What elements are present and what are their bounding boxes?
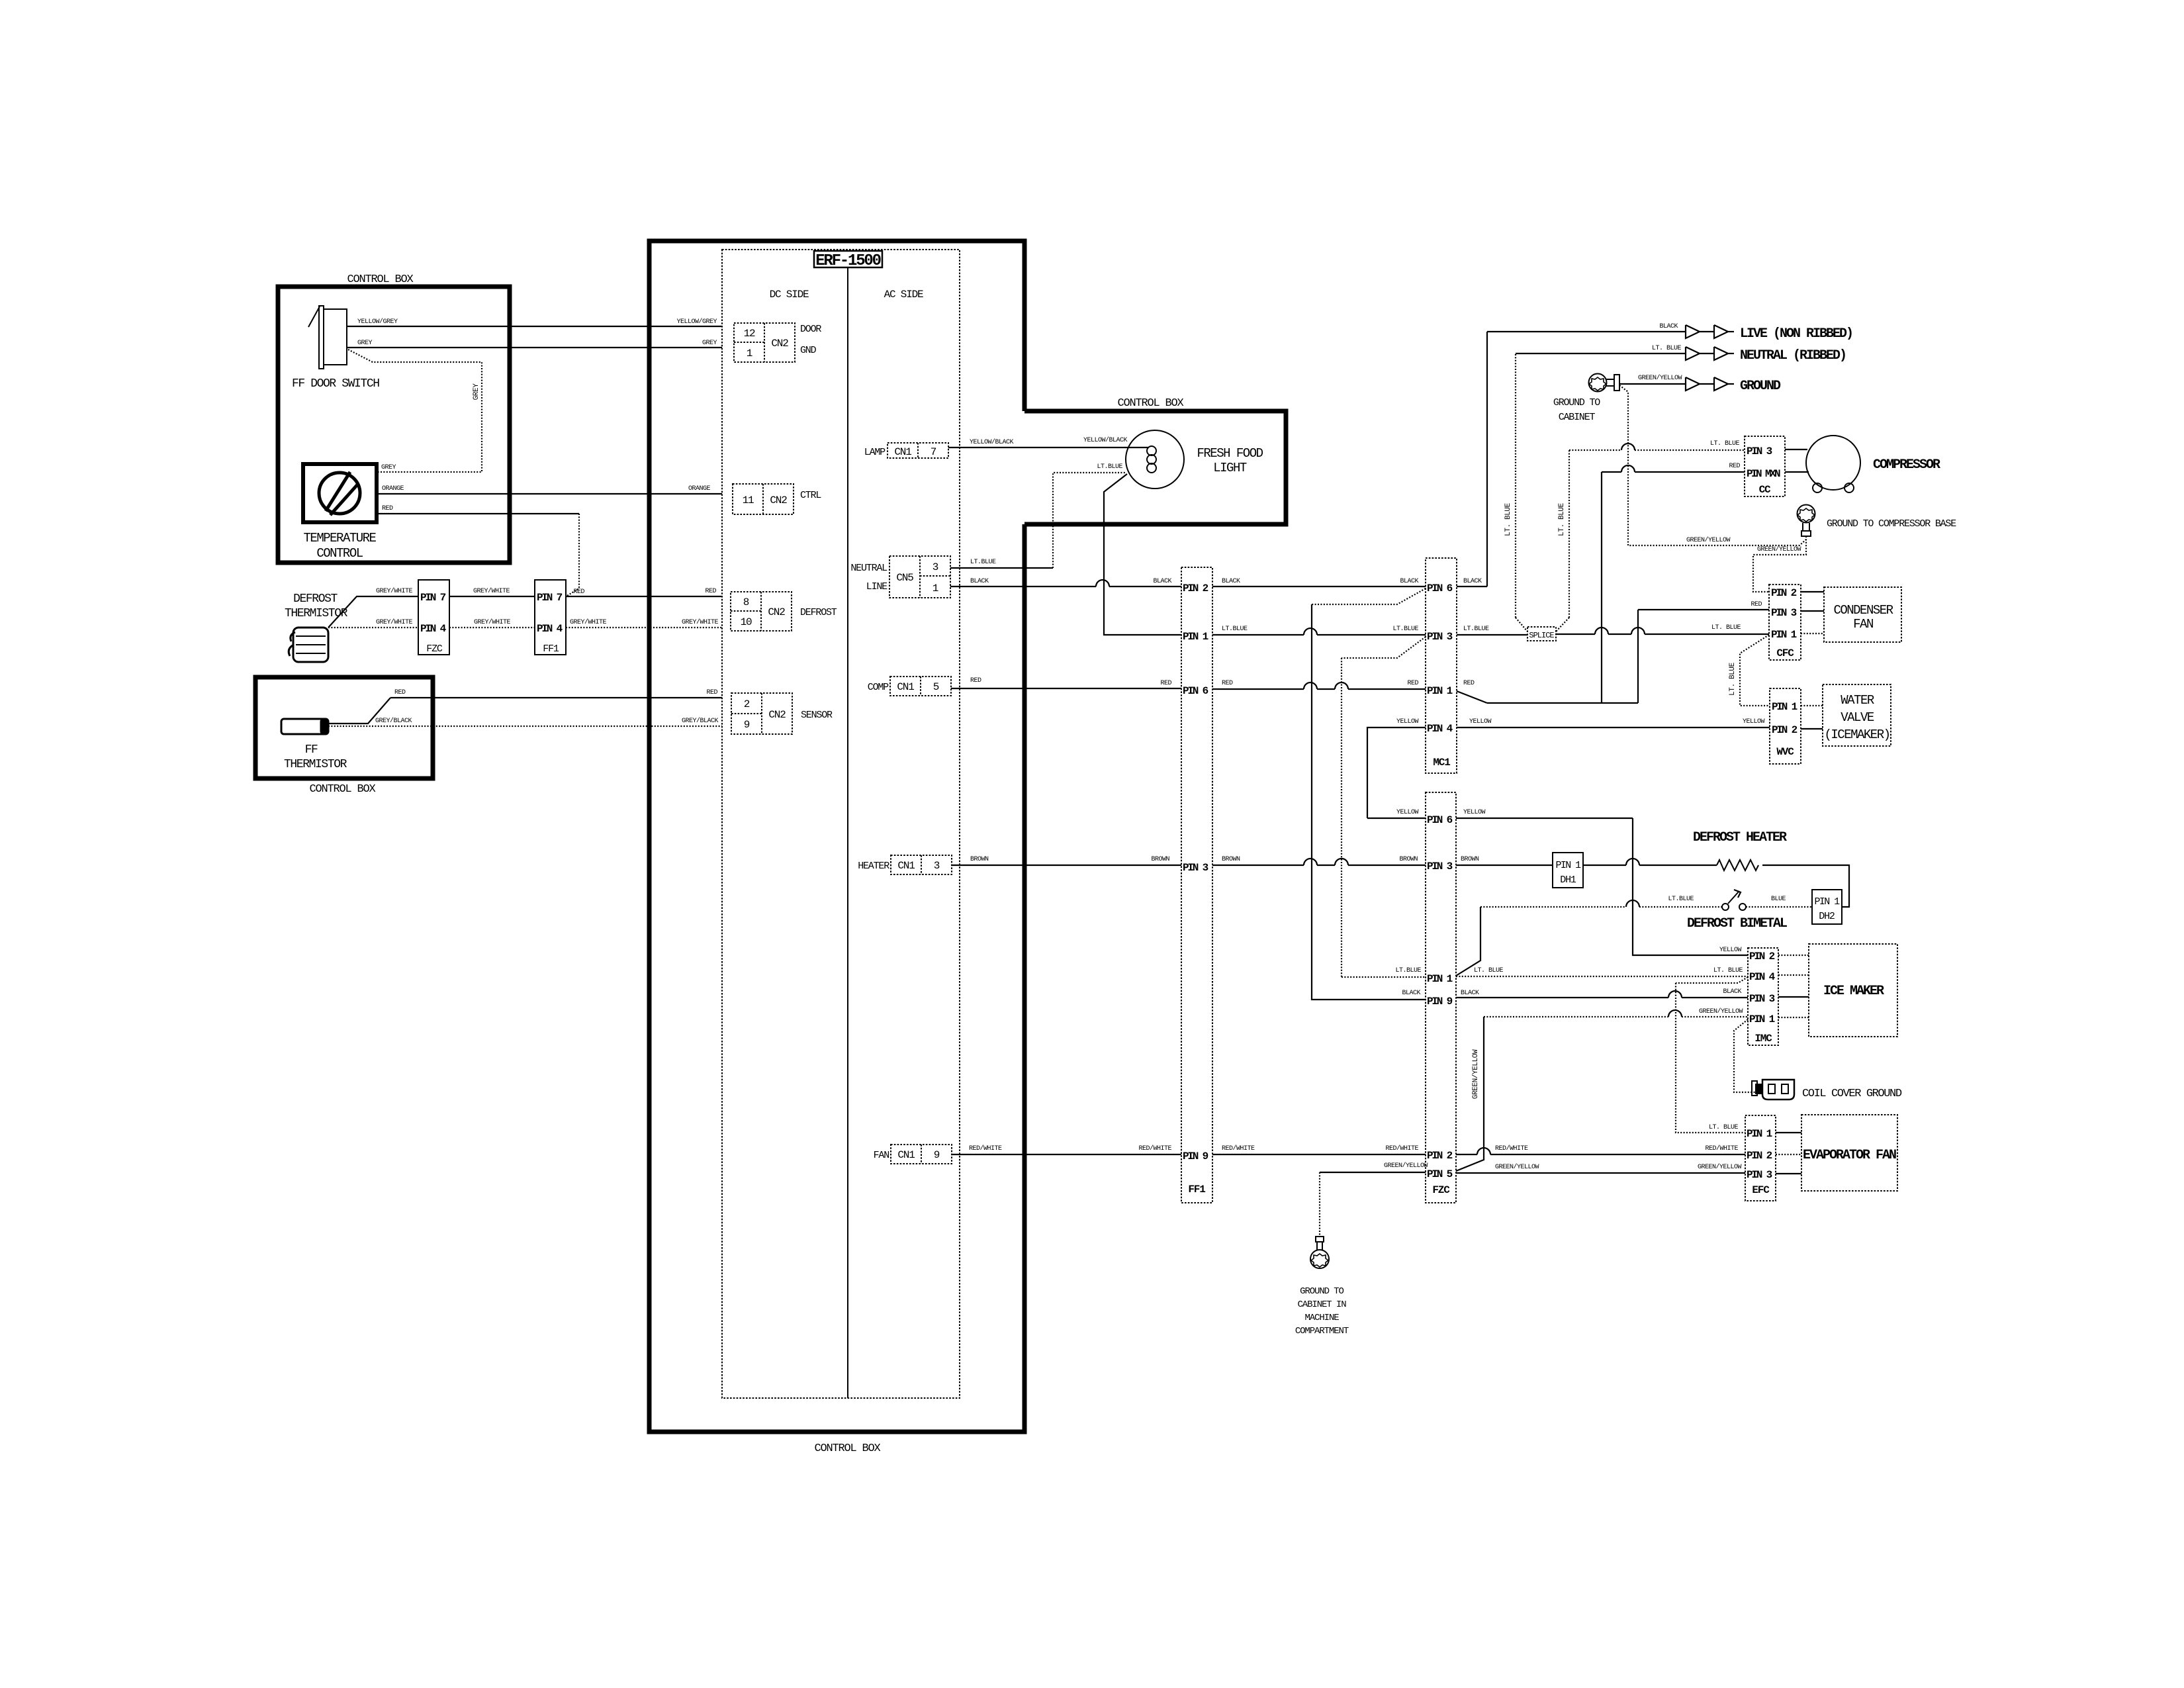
svg-text:PIN 6: PIN 6 <box>1183 685 1208 697</box>
svg-text:ORANGE: ORANGE <box>688 485 711 492</box>
svg-text:PIN 2: PIN 2 <box>1183 583 1208 594</box>
defrost thermistor RT1 symbol <box>289 628 328 662</box>
wire LT.BLUE FF1 pin1 to MC1 pin3 <box>1212 634 1304 635</box>
svg-text:YELLOW: YELLOW <box>1396 809 1419 816</box>
svg-text:GREEN/YELLOW: GREEN/YELLOW <box>1686 536 1731 544</box>
svg-text:PIN 4: PIN 4 <box>420 623 447 635</box>
svg-text:THERMISTOR: THERMISTOR <box>284 758 347 771</box>
svg-text:GREY/BLACK: GREY/BLACK <box>682 717 719 725</box>
svg-text:CN1: CN1 <box>897 1149 915 1161</box>
wire YELLOW/BLACK CN1-7 lamp to fresh food light <box>948 447 1149 448</box>
svg-text:DEFROST HEATER: DEFROST HEATER <box>1693 830 1787 845</box>
svg-text:FF1: FF1 <box>543 643 559 655</box>
svg-text:EFC: EFC <box>1752 1184 1770 1196</box>
svg-text:1: 1 <box>747 348 752 359</box>
fan EVAPORATOR FAN box <box>1801 1115 1897 1191</box>
icemaker ICE MAKER box <box>1809 944 1897 1037</box>
svg-text:LT.BLUE: LT.BLUE <box>1097 463 1122 471</box>
svg-text:TEMPERATURE: TEMPERATURE <box>304 531 377 545</box>
svg-text:RED/WHITE: RED/WHITE <box>969 1145 1002 1152</box>
svg-text:9: 9 <box>744 719 750 731</box>
svg-text:YELLOW: YELLOW <box>1719 947 1742 954</box>
wire GREY/WHITE FZC pin4 to FF1 pin4 <box>449 627 535 628</box>
svg-text:COMP: COMP <box>868 682 889 693</box>
svg-text:MACHINE: MACHINE <box>1304 1313 1339 1323</box>
svg-text:RED: RED <box>1222 680 1233 687</box>
svg-text:CONTROL BOX: CONTROL BOX <box>1117 397 1183 410</box>
svg-text:CFC: CFC <box>1776 647 1794 659</box>
svg-text:GREY/WHITE: GREY/WHITE <box>474 618 511 626</box>
svg-text:BROWN: BROWN <box>1399 856 1418 863</box>
svg-text:RED: RED <box>1407 680 1418 687</box>
svg-text:BLACK: BLACK <box>1723 988 1741 996</box>
wire GREEN/YELLOW IMC pin1 to coil cover ground <box>1734 1019 1757 1092</box>
wire RED temperature control to FF1 pin 7 <box>377 513 579 514</box>
svg-text:PIN 4: PIN 4 <box>1427 723 1453 735</box>
wire IMC pin3 to ice maker <box>1778 996 1809 998</box>
svg-text:1: 1 <box>933 583 938 594</box>
wire EFC pin3 to evaporator fan <box>1776 1173 1801 1174</box>
svg-text:BROWN: BROWN <box>1151 856 1169 863</box>
connector FZC (small, defrost thermistor) <box>418 580 449 655</box>
wire WVC pin1 to water valve <box>1801 705 1823 706</box>
wire LT.BLUE CN5-3 to fresh food light <box>950 567 1053 569</box>
wire RED FF1 pin7 to CN2-8 defrost <box>566 596 722 597</box>
wire BLACK FF1 pin2 to MC1 pin6 <box>1212 586 1426 587</box>
wire BLUE bimetal to DH2 <box>1746 896 1812 907</box>
ERF-1500 board DC/AC divider <box>847 267 848 1398</box>
svg-text:PIN 2: PIN 2 <box>1771 587 1797 599</box>
svg-text:PIN 3: PIN 3 <box>1427 861 1453 872</box>
svg-text:LT.BLUE: LT.BLUE <box>970 559 996 566</box>
svg-text:SPLICE: SPLICE <box>1529 631 1554 640</box>
svg-text:COIL COVER GROUND: COIL COVER GROUND <box>1802 1088 1902 1100</box>
control box around ERF-1500 board (thick outline with fresh food light bay) <box>649 241 1024 1432</box>
svg-text:PIN 1: PIN 1 <box>1772 701 1797 713</box>
svg-text:RED: RED <box>382 505 393 512</box>
svg-text:GREEN/YELLOW: GREEN/YELLOW <box>1698 1163 1742 1171</box>
wire CFC pin1 to condenser fan <box>1801 633 1824 634</box>
wire LT.BLUE fresh food light down to FF1 pin 1 <box>1104 474 1181 635</box>
svg-text:GREY: GREY <box>381 464 396 471</box>
wire BROWN CN1-3 heater to FF1 pin 3 <box>952 865 1181 866</box>
svg-text:GREY/WHITE: GREY/WHITE <box>570 618 607 626</box>
wire BLACK CN5-1 to FF1 pin 2 <box>950 586 1096 587</box>
svg-text:GREY: GREY <box>473 383 480 400</box>
svg-text:YELLOW/GREY: YELLOW/GREY <box>676 318 717 326</box>
svg-text:PIN 4: PIN 4 <box>1749 971 1776 983</box>
svg-text:LT. BLUE: LT. BLUE <box>1713 967 1743 974</box>
wire RED/WHITE FZC pin2 to EFC pin2 <box>1456 1145 1745 1154</box>
wire IMC pin4 to ice maker <box>1778 974 1809 976</box>
wire RED FF thermistor to CN2-2 sensor <box>328 698 390 724</box>
svg-text:FF: FF <box>305 743 318 757</box>
wire LT.BLUE FZC pin1 up to defrost bimetal <box>1456 896 1722 976</box>
wire YELLOW/GREY door switch to CN2-12 <box>347 326 722 327</box>
svg-text:EVAPORATOR FAN: EVAPORATOR FAN <box>1803 1148 1896 1163</box>
svg-text:CN1: CN1 <box>897 860 915 872</box>
wire IMC pin2 to ice maker <box>1778 955 1809 956</box>
svg-text:PIN 1: PIN 1 <box>1427 973 1453 985</box>
svg-text:GREY: GREY <box>702 340 717 347</box>
svg-text:LT. BLUE: LT. BLUE <box>1729 662 1737 695</box>
wire RED CN1-5 comp to FF1 pin 6 <box>951 688 1181 689</box>
svg-text:VALVE: VALVE <box>1841 710 1874 725</box>
svg-text:GREEN/YELLOW: GREEN/YELLOW <box>1472 1049 1480 1099</box>
wire BROWN DH1 to heater element <box>1583 865 1626 866</box>
svg-text:NEUTRAL: NEUTRAL <box>850 563 887 574</box>
connector MC1 (machine compartment) <box>1426 558 1457 773</box>
svg-text:GREEN/YELLOW: GREEN/YELLOW <box>1638 374 1682 382</box>
svg-text:PIN 1: PIN 1 <box>1749 1013 1775 1025</box>
svg-text:2: 2 <box>744 698 750 710</box>
svg-text:FAN: FAN <box>1853 617 1873 632</box>
svg-text:YELLOW: YELLOW <box>1463 809 1486 816</box>
svg-text:LT.BLUE: LT.BLUE <box>1392 626 1418 633</box>
wire BROWN FZC pin3 to DH1 defrost heater <box>1456 856 1553 865</box>
svg-text:BLUE: BLUE <box>1771 896 1786 903</box>
wire YELLOW MC1 pin4 to FZC pin6 <box>1367 718 1426 818</box>
svg-text:BLACK: BLACK <box>970 578 989 585</box>
wire EFC pin1 to evaporator fan <box>1776 1132 1801 1133</box>
svg-text:GREEN/YELLOW: GREEN/YELLOW <box>1384 1162 1428 1170</box>
resistor defrost heater element <box>1717 860 1758 870</box>
svg-text:PIN 1: PIN 1 <box>1555 860 1581 871</box>
ERF-1500 board inner outline <box>722 250 960 1398</box>
svg-text:(ICEMAKER): (ICEMAKER) <box>1824 727 1889 742</box>
svg-text:CONTROL BOX: CONTROL BOX <box>347 273 413 286</box>
svg-text:YELLOW: YELLOW <box>1469 718 1492 726</box>
svg-text:RED/WHITE: RED/WHITE <box>1222 1145 1255 1152</box>
svg-text:BROWN: BROWN <box>1461 856 1479 863</box>
terminal arrows LIVE (NON RIBBED) <box>1686 325 1734 338</box>
svg-text:BLACK: BLACK <box>1222 578 1240 585</box>
ground lug GROUND TO COMPRESSOR BASE symbol <box>1797 505 1815 537</box>
svg-text:LT.BLUE: LT.BLUE <box>1222 626 1248 633</box>
svg-text:LT. BLUE: LT. BLUE <box>1709 1124 1739 1131</box>
connector FZC (freezer compartment) <box>1426 792 1456 1203</box>
ground lug GROUND TO CABINET symbol <box>1589 374 1620 392</box>
svg-text:CN2: CN2 <box>771 338 788 350</box>
svg-text:YELLOW: YELLOW <box>1743 718 1765 726</box>
svg-text:SENSOR: SENSOR <box>801 710 833 721</box>
svg-text:YELLOW/BLACK: YELLOW/BLACK <box>1083 436 1128 444</box>
wire GREEN/YELLOW compressor base lug to CFC pin2 <box>1753 536 1806 592</box>
svg-text:CN1: CN1 <box>897 681 914 693</box>
svg-text:LT. BLUE: LT. BLUE <box>1474 967 1504 974</box>
svg-text:BROWN: BROWN <box>970 856 989 863</box>
svg-text:CN2: CN2 <box>770 494 787 506</box>
svg-text:COMPRESSOR: COMPRESSOR <box>1873 457 1940 473</box>
svg-text:PIN 2: PIN 2 <box>1772 724 1797 736</box>
svg-text:RED/WHITE: RED/WHITE <box>1495 1145 1528 1152</box>
wire YELLOW FZC pin6 to IMC pin2 <box>1456 809 1748 955</box>
wire CFC pin3 to condenser fan <box>1801 610 1824 612</box>
svg-text:BLACK: BLACK <box>1659 323 1678 330</box>
svg-text:PIN 3: PIN 3 <box>1747 445 1772 457</box>
svg-text:FRESH FOOD: FRESH FOOD <box>1197 446 1263 461</box>
svg-text:LINE: LINE <box>866 581 887 592</box>
svg-text:FAN: FAN <box>874 1150 889 1161</box>
svg-text:DEFROST: DEFROST <box>800 607 837 618</box>
svg-text:PIN 6: PIN 6 <box>1427 583 1453 594</box>
switch S1 FF DOOR SWITCH symbol <box>308 306 347 369</box>
connector IMC (ice maker) <box>1748 948 1778 1045</box>
wire GREEN/YELLOW FZC pin5 up to IMC pin1 <box>1456 1008 1748 1171</box>
ground lug COIL COVER GROUND symbol <box>1752 1080 1794 1100</box>
wire LT.BLUE CFC pin1 down to WVC pin1 <box>1729 635 1770 706</box>
svg-text:CN2: CN2 <box>768 709 786 721</box>
svg-text:LT.BLUE: LT.BLUE <box>1668 896 1694 903</box>
svg-text:LIVE (NON RIBBED): LIVE (NON RIBBED) <box>1740 326 1852 342</box>
svg-text:PIN 1: PIN 1 <box>1427 685 1453 697</box>
svg-text:GROUND: GROUND <box>1740 379 1781 394</box>
svg-text:PIN 5: PIN 5 <box>1427 1168 1453 1180</box>
svg-text:BLACK: BLACK <box>1402 990 1420 997</box>
svg-text:PIN 4: PIN 4 <box>537 623 563 635</box>
wire BLACK MC1 pin6 loop down to FZC pin9 <box>1312 588 1426 604</box>
svg-text:BLACK: BLACK <box>1400 578 1418 585</box>
svg-text:GREY/BLACK: GREY/BLACK <box>375 717 412 725</box>
wire GREY/WHITE FZC pin7 to FF1 pin7 <box>449 596 535 597</box>
svg-text:LIGHT: LIGHT <box>1213 461 1247 475</box>
wire LT.BLUE splice up to CC pin3 <box>1556 440 1745 632</box>
svg-text:YELLOW/BLACK: YELLOW/BLACK <box>970 438 1014 446</box>
svg-text:GREY: GREY <box>357 340 373 347</box>
svg-text:PIN 9: PIN 9 <box>1427 996 1453 1008</box>
svg-text:CONDENSER: CONDENSER <box>1833 603 1893 618</box>
svg-text:LAMP: LAMP <box>864 447 886 458</box>
svg-text:RED/WHITE: RED/WHITE <box>1138 1145 1171 1152</box>
svg-text:CABINET: CABINET <box>1559 412 1596 423</box>
wire YELLOW MC1 pin4 to WVC pin2 <box>1457 727 1770 728</box>
svg-text:7: 7 <box>931 446 936 458</box>
svg-text:RED: RED <box>1751 601 1762 608</box>
svg-text:PIN 2: PIN 2 <box>1747 1150 1772 1162</box>
svg-text:9: 9 <box>934 1149 940 1161</box>
svg-text:CONTROL: CONTROL <box>316 546 363 561</box>
svg-text:GND: GND <box>800 345 817 356</box>
svg-text:GREY/WHITE: GREY/WHITE <box>376 618 413 626</box>
svg-text:WATER: WATER <box>1841 693 1874 708</box>
wire EFC pin2 to evaporator fan <box>1776 1154 1801 1155</box>
svg-text:LT. BLUE: LT. BLUE <box>1504 502 1512 536</box>
svg-text:11: 11 <box>743 494 754 506</box>
svg-text:8: 8 <box>743 596 749 608</box>
svg-text:CN1: CN1 <box>894 446 911 458</box>
svg-text:FZC: FZC <box>426 643 443 655</box>
svg-text:PIN 3: PIN 3 <box>1183 862 1208 874</box>
svg-text:RED: RED <box>1463 680 1475 687</box>
wire LT.BLUE IMC pin4 down to EFC pin1 <box>1676 977 1748 1133</box>
svg-text:BLACK: BLACK <box>1463 578 1482 585</box>
svg-text:GREY/WHITE: GREY/WHITE <box>473 587 510 595</box>
switch DEFROST BIMETAL symbol <box>1722 890 1746 910</box>
svg-text:LT. BLUE: LT. BLUE <box>1710 440 1740 447</box>
svg-text:ICE MAKER: ICE MAKER <box>1823 984 1884 999</box>
connector FF1 (small, defrost thermistor) <box>535 580 566 655</box>
svg-text:CABINET IN: CABINET IN <box>1297 1299 1346 1310</box>
svg-text:RED: RED <box>573 588 584 596</box>
connector DH1 box <box>1553 853 1583 888</box>
wire IMC pin1 to ice maker <box>1778 1017 1809 1018</box>
valve WATER VALVE (ICEMAKER) box <box>1823 684 1891 746</box>
wire GREY/BLACK FF thermistor to CN2-9 sensor <box>328 726 722 727</box>
wire GREY door switch to CN2-1 <box>347 347 722 348</box>
connector CN1 comp block <box>890 677 951 696</box>
terminal arrows NEUTRAL (RIBBED) <box>1686 347 1734 360</box>
svg-text:PIN 1: PIN 1 <box>1747 1128 1772 1140</box>
svg-text:FZC: FZC <box>1432 1184 1450 1196</box>
svg-text:PIN 1: PIN 1 <box>1814 896 1840 908</box>
svg-text:RED: RED <box>705 588 716 595</box>
svg-text:GREEN/YELLOW: GREEN/YELLOW <box>1757 545 1801 553</box>
svg-text:PIN 2: PIN 2 <box>1749 951 1775 962</box>
svg-text:THERMISTOR: THERMISTOR <box>285 607 348 620</box>
svg-text:LT. BLUE: LT. BLUE <box>1558 502 1566 536</box>
svg-text:RED: RED <box>1160 680 1171 687</box>
connector CC (compressor) <box>1745 436 1785 496</box>
connector CN5 neutral/line block <box>889 556 950 598</box>
connector CN1 fan block <box>891 1145 952 1164</box>
wire RED MC1 pin1 to CC pin MXN and CFC pin3 <box>1457 463 1769 703</box>
connector CFC (condenser fan) <box>1769 585 1801 660</box>
svg-text:IMC: IMC <box>1754 1033 1772 1045</box>
connector CN1 heater block <box>891 855 952 874</box>
wire LT.BLUE MC1 pin3 loop down to FZC pin1 <box>1342 637 1426 658</box>
fan CONDENSER FAN box <box>1824 587 1901 642</box>
svg-text:DOOR: DOOR <box>800 324 821 335</box>
svg-text:PIN 1: PIN 1 <box>1183 631 1208 643</box>
svg-text:PIN MXN: PIN MXN <box>1747 468 1780 480</box>
svg-text:CONTROL BOX: CONTROL BOX <box>814 1442 880 1455</box>
svg-text:DC SIDE: DC SIDE <box>770 289 809 301</box>
svg-text:10: 10 <box>741 616 752 628</box>
svg-text:PIN 3: PIN 3 <box>1747 1169 1772 1181</box>
wire GREY/WHITE defrost thermistor to FZC pin 4 <box>328 627 418 628</box>
connector FF1 (main harness) <box>1181 567 1212 1203</box>
svg-text:RED: RED <box>706 689 717 696</box>
svg-text:DH2: DH2 <box>1819 911 1835 922</box>
svg-text:CN5: CN5 <box>896 572 913 584</box>
svg-text:ERF-1500: ERF-1500 <box>815 252 881 270</box>
svg-text:RED: RED <box>394 689 406 696</box>
wire GREY/WHITE defrost thermistor to FZC pin 7 <box>328 596 418 628</box>
svg-text:CTRL: CTRL <box>800 490 821 501</box>
FF thermistor RT2 symbol <box>281 719 328 734</box>
wire LT.BLUE MC1 pin3 to splice and NEUTRAL <box>1457 345 1686 635</box>
connector CN1 lamp block <box>887 443 948 458</box>
wire GREEN/YELLOW ground-to-cabinet down to compressor base lug <box>1619 385 1806 545</box>
wire LT.BLUE splice to CFC pin1 <box>1556 633 1595 635</box>
svg-text:GREY/WHITE: GREY/WHITE <box>376 587 413 595</box>
svg-text:GROUND TO: GROUND TO <box>1553 397 1600 408</box>
terminal arrows GROUND <box>1686 377 1734 391</box>
wire BLACK FZC pin9 to IMC pin3 <box>1402 988 1748 998</box>
control box (FF door switch / temperature control) outline <box>278 287 510 563</box>
svg-text:ORANGE: ORANGE <box>382 485 404 492</box>
svg-text:CC: CC <box>1759 484 1771 496</box>
wire BROWN FF1 pin3 to FZC pin3 <box>1212 865 1304 866</box>
svg-text:BLACK: BLACK <box>1153 578 1171 585</box>
svg-text:BLACK: BLACK <box>1461 990 1479 997</box>
wire RED/WHITE FF1 pin9 to FZC pin2 <box>1212 1154 1426 1155</box>
svg-text:DEFROST: DEFROST <box>293 592 338 606</box>
svg-text:FF DOOR SWITCH: FF DOOR SWITCH <box>292 377 379 391</box>
splice SPLICE box <box>1527 627 1556 641</box>
svg-text:PIN 6: PIN 6 <box>1427 814 1453 826</box>
motor COMPRESSOR symbol <box>1785 436 1860 492</box>
wire ORANGE temperature control to CN2-11 <box>377 493 722 494</box>
wire GREY door switch down to temperature control <box>348 350 482 472</box>
connector WVC (water valve) <box>1770 688 1801 764</box>
connector CN2 ctrl block <box>733 484 794 514</box>
lamp FRESH FOOD LIGHT symbol <box>1126 430 1184 489</box>
svg-text:YELLOW/GREY: YELLOW/GREY <box>357 318 398 326</box>
wire RED/WHITE CN1-9 fan to FF1 pin 9 <box>952 1154 1181 1155</box>
svg-text:WVC: WVC <box>1776 746 1794 758</box>
svg-text:PIN 7: PIN 7 <box>537 592 563 604</box>
svg-text:LT.BLUE: LT.BLUE <box>1395 967 1421 974</box>
svg-text:GROUND TO COMPRESSOR BASE: GROUND TO COMPRESSOR BASE <box>1827 518 1956 530</box>
connector CN2 defrost block <box>731 592 792 631</box>
svg-text:PIN 3: PIN 3 <box>1427 631 1453 643</box>
wire WVC pin2 to water valve <box>1801 728 1823 729</box>
svg-text:HEATER: HEATER <box>858 861 889 872</box>
wire GREY/WHITE FF1 pin4 to CN2-10 defrost <box>566 627 722 628</box>
wire heater element to DH2 <box>1762 865 1849 907</box>
svg-text:PIN 3: PIN 3 <box>1771 607 1797 619</box>
svg-text:DEFROST BIMETAL: DEFROST BIMETAL <box>1687 916 1787 931</box>
svg-text:RED: RED <box>970 677 981 684</box>
wire BLACK MC1 pin6 to LIVE <box>1457 323 1686 586</box>
svg-text:YELLOW: YELLOW <box>1396 718 1419 726</box>
svg-text:PIN 9: PIN 9 <box>1183 1150 1208 1162</box>
wire CFC pin2 to condenser fan <box>1801 591 1824 592</box>
svg-text:DH1: DH1 <box>1560 874 1576 886</box>
svg-text:CN2: CN2 <box>768 606 785 618</box>
wire LT.BLUE FZC pin1 to IMC pin4 <box>1395 967 1748 976</box>
fresh food light control box outline <box>1024 411 1286 524</box>
svg-text:AC SIDE: AC SIDE <box>884 289 923 301</box>
svg-text:PIN 7: PIN 7 <box>420 592 446 604</box>
svg-text:LT.BLUE: LT.BLUE <box>1463 626 1489 633</box>
svg-text:MC1: MC1 <box>1433 757 1450 769</box>
svg-text:GREEN/YELLOW: GREEN/YELLOW <box>1699 1008 1743 1015</box>
svg-text:12: 12 <box>744 328 755 340</box>
svg-text:RED/WHITE: RED/WHITE <box>1705 1145 1738 1152</box>
svg-text:CONTROL BOX: CONTROL BOX <box>309 783 375 796</box>
connector DH2 box <box>1812 890 1842 924</box>
svg-text:BROWN: BROWN <box>1222 856 1240 863</box>
control box (FF thermistor) outline <box>255 677 433 778</box>
ERF-1500 title box <box>814 251 882 267</box>
wire GREEN/YELLOW ground lug to GROUND terminal <box>1619 383 1686 385</box>
svg-text:3: 3 <box>934 860 940 872</box>
svg-text:GROUND TO: GROUND TO <box>1300 1286 1343 1297</box>
svg-text:PIN 2: PIN 2 <box>1427 1150 1453 1162</box>
connector CN2 door/gnd block <box>734 323 795 362</box>
svg-text:RED: RED <box>1729 463 1740 470</box>
svg-text:RED/WHITE: RED/WHITE <box>1385 1145 1418 1152</box>
svg-text:COMPARTMENT: COMPARTMENT <box>1295 1326 1349 1336</box>
svg-text:LT. BLUE: LT. BLUE <box>1711 624 1741 632</box>
svg-text:GREY/WHITE: GREY/WHITE <box>682 618 719 626</box>
temperature control dial symbol <box>319 472 360 515</box>
svg-text:PIN 3: PIN 3 <box>1749 993 1775 1005</box>
svg-text:FF1: FF1 <box>1188 1184 1205 1196</box>
connector CN2 sensor block <box>731 693 792 734</box>
